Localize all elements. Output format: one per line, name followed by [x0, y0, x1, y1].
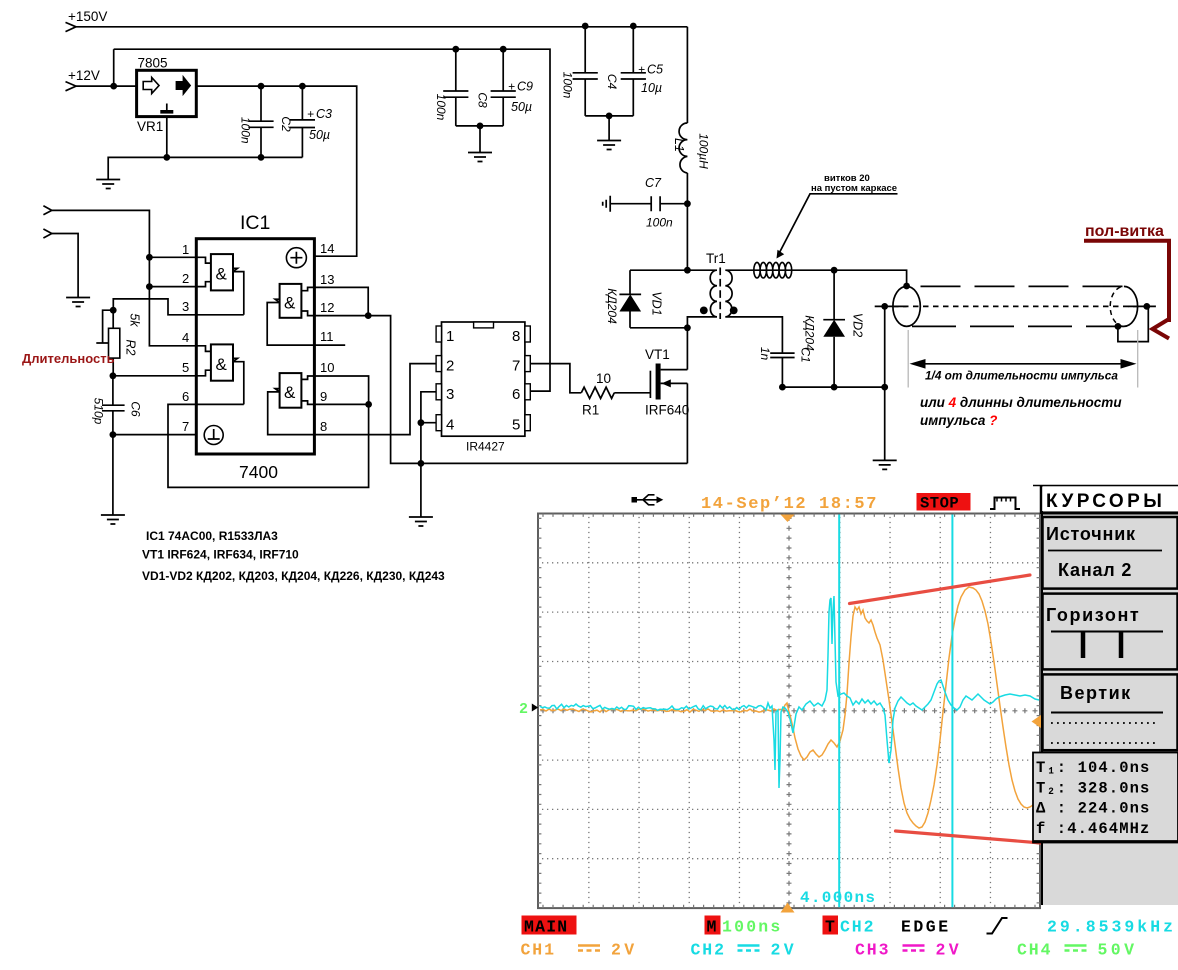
svg-text:100n: 100n — [239, 117, 253, 144]
trigger marker bottom orange — [781, 903, 795, 913]
pin box U2-6 — [512, 384, 530, 403]
pin box U2-2 — [436, 356, 454, 375]
svg-text:f :4.464MHz: f :4.464MHz — [1036, 820, 1150, 838]
junction +12V tap — [110, 83, 117, 90]
svg-text:VD1-VD2 КД202, КД203, КД204, К: VD1-VD2 КД202, КД203, КД204, КД226, КД23… — [142, 569, 445, 583]
gate U1D nand mirrored — [267, 284, 345, 345]
svg-text:&: & — [284, 294, 296, 313]
junction in34 rail — [418, 460, 425, 467]
svg-text:7: 7 — [512, 358, 520, 375]
wire coax center stub right — [1128, 305, 1156, 307]
svg-text:3: 3 — [446, 386, 454, 403]
pin 1 label — [182, 242, 189, 257]
junction 7805 gnd — [163, 154, 170, 161]
pin box U2-8 — [512, 326, 530, 345]
inductor half-turn choke 20 vitkov — [754, 262, 792, 278]
label 4.000ns cyan — [800, 889, 876, 907]
svg-text:CH2: CH2 — [691, 941, 726, 960]
svg-text:IR4427: IR4427 — [466, 440, 505, 454]
svg-text:29.8539kHz: 29.8539kHz — [1047, 918, 1176, 937]
svg-text:Источник: Источник — [1046, 524, 1136, 544]
panel button Gorizont — [1043, 594, 1178, 670]
svg-text:8: 8 — [512, 328, 520, 345]
wire secondary top to coax — [753, 270, 907, 286]
node +12V input connector — [66, 68, 100, 91]
svg-text:C8: C8 — [476, 92, 490, 108]
ground G5 — [597, 141, 621, 150]
svg-text:11: 11 — [320, 329, 334, 344]
svg-text:на пустом каркасе: на пустом каркасе — [811, 183, 897, 194]
ground C7 sideways — [603, 196, 611, 212]
channel 2 marker left — [519, 701, 538, 718]
wire +12V input to 7805 — [76, 85, 137, 87]
wire pin1 stub — [149, 256, 196, 258]
wire +12V riser — [113, 49, 115, 86]
svg-text:1n: 1n — [758, 347, 772, 361]
label CH4 — [1017, 941, 1137, 960]
icon usb trigger — [632, 495, 664, 505]
svg-text:T₁: 104.0ns: T₁: 104.0ns — [1036, 759, 1150, 777]
node input 2 connector — [43, 229, 51, 238]
svg-text:C4: C4 — [605, 74, 619, 90]
cursor line 1 cyan — [838, 515, 840, 908]
svg-text:4.000ns: 4.000ns — [800, 889, 876, 907]
pin 14 label — [320, 241, 334, 256]
pin 9 label — [320, 389, 327, 404]
svg-text:9: 9 — [320, 389, 327, 404]
svg-text:Tr1: Tr1 — [706, 251, 726, 266]
wire L1 to C7 node — [686, 173, 688, 270]
svg-text:100ns: 100ns — [722, 918, 783, 937]
gate U1A nand — [196, 254, 244, 315]
svg-text:MAIN: MAIN — [524, 918, 568, 937]
capacitor C4 100n — [561, 26, 620, 116]
svg-text:50µ: 50µ — [511, 100, 532, 114]
ground G4 — [468, 153, 492, 162]
coax cable body — [893, 286, 1147, 326]
wire in34 to ground — [420, 423, 422, 517]
inductor L1 100uH — [672, 123, 711, 173]
junction C2 bottom — [258, 154, 265, 161]
wire U2 pin3 pin4 tie — [421, 392, 436, 423]
svg-text:КД204: КД204 — [605, 288, 619, 324]
svg-text:2: 2 — [446, 358, 454, 375]
svg-text:4: 4 — [446, 417, 454, 434]
wire C6 to ground — [112, 435, 114, 515]
ground G3 — [101, 515, 125, 524]
svg-text:5k: 5k — [128, 313, 142, 327]
svg-text:C5: C5 — [647, 63, 663, 77]
svg-text:510p: 510p — [92, 398, 106, 425]
label 1/4 ot dlitelnosti impulsa — [925, 369, 1118, 383]
junction primary top — [684, 267, 691, 274]
svg-text:EDGE: EDGE — [901, 918, 951, 937]
svg-text:C7: C7 — [645, 176, 662, 190]
svg-text:+: + — [638, 63, 645, 77]
svg-text:КД204: КД204 — [803, 315, 817, 351]
regulator VR1 7805 — [137, 56, 197, 135]
svg-text:VT1 IRF624, IRF634, IRF710: VT1 IRF624, IRF634, IRF710 — [142, 548, 299, 562]
pin 12 label — [320, 300, 334, 315]
pin box U2-7 — [512, 356, 530, 375]
wire +150V rail — [76, 26, 687, 28]
capacitor C8 100n — [434, 49, 490, 126]
svg-text:VR1: VR1 — [137, 119, 163, 134]
potentiometer R2 5k — [96, 310, 141, 376]
svg-text:VD2: VD2 — [851, 313, 865, 337]
svg-text:Вертик: Вертик — [1060, 683, 1132, 703]
scope graticule border — [538, 514, 1040, 909]
cursor line 2 cyan — [951, 515, 953, 908]
svg-text:4: 4 — [182, 330, 189, 345]
wire pin12 to source rail — [314, 316, 687, 464]
svg-text:Δ : 224.0ns: Δ : 224.0ns — [1036, 800, 1150, 818]
diode VD1 KD204 — [605, 270, 664, 328]
panel button Vertik — [1043, 674, 1178, 750]
svg-text:50V: 50V — [1098, 941, 1138, 960]
svg-text:3: 3 — [182, 299, 189, 314]
ground symbol pin7 — [204, 426, 223, 445]
svg-text:L1: L1 — [672, 138, 686, 152]
junction pin2 — [146, 283, 153, 290]
capacitor C1 1n — [758, 347, 813, 387]
svg-text:7: 7 — [182, 419, 189, 434]
svg-text:IC1: IC1 — [240, 212, 270, 234]
capacitor C6 510p — [92, 376, 143, 435]
svg-text:100µH: 100µH — [697, 133, 711, 169]
junction C8 top — [452, 46, 459, 53]
panel button Istochnik / Kanal 2 — [1043, 517, 1178, 589]
svg-text:12: 12 — [320, 300, 334, 315]
ground G7 — [873, 460, 897, 469]
svg-text:5: 5 — [512, 417, 520, 434]
svg-text:C2: C2 — [279, 116, 293, 132]
svg-text:2V: 2V — [611, 941, 638, 960]
svg-text:1/4 от длительности импульса: 1/4 от длительности импульса — [925, 369, 1118, 383]
svg-text:100n: 100n — [646, 216, 673, 230]
svg-text:5: 5 — [182, 360, 189, 375]
junction C8C9 gnd — [477, 123, 484, 130]
junction coax center right — [1143, 303, 1150, 310]
label CH3 — [855, 941, 962, 960]
junction R2 top — [110, 307, 117, 314]
IC U2 IR4427 body — [442, 322, 525, 454]
icon pulse train — [990, 498, 1020, 510]
capacitor C9 50u electrolytic — [491, 49, 533, 126]
svg-text:Длительность: Длительность — [22, 351, 115, 366]
wire pin7 net — [113, 434, 196, 436]
transformer Tr1 — [687, 251, 782, 353]
junction VD2 top — [831, 267, 838, 274]
wire pin9 stub — [314, 403, 368, 405]
wire pin13 to pin12 — [314, 287, 368, 315]
svg-text:CH4: CH4 — [1017, 941, 1052, 960]
svg-text:или 4 длинны длительности: или 4 длинны длительности — [920, 395, 1122, 410]
svg-text:+150V: +150V — [68, 9, 107, 24]
junction C4 top — [582, 23, 589, 30]
svg-text:CH2: CH2 — [840, 918, 875, 937]
svg-text:50µ: 50µ — [309, 128, 330, 142]
capacitor C5 10u electrolytic — [621, 26, 663, 116]
svg-text:C6: C6 — [129, 401, 143, 417]
transistor VT1 IRF640 — [645, 328, 689, 463]
pin 7 label — [182, 419, 189, 434]
svg-text:10µ: 10µ — [641, 81, 662, 95]
svg-text:STOP: STOP — [920, 495, 959, 513]
label CH1 — [521, 941, 638, 960]
junction coax braid left — [903, 283, 910, 290]
resistor R1 10 — [581, 371, 650, 418]
pin 3 label — [182, 299, 189, 314]
label date time orange — [701, 495, 878, 514]
capacitor C3 50u electrolytic — [290, 86, 332, 157]
pin box U2-5 — [512, 415, 530, 434]
wire 7805 output (+5V) to pin 14 — [196, 86, 356, 256]
wire output ground rail — [782, 387, 884, 460]
svg-text:CH3: CH3 — [855, 941, 890, 960]
waveform CH1 orange — [540, 587, 1039, 828]
svg-text:2: 2 — [519, 701, 528, 718]
IC U1 7400 body — [196, 212, 314, 482]
trigger marker top orange — [781, 515, 795, 523]
panel cursor readout box — [1033, 753, 1178, 843]
pin box U2-3 — [436, 384, 454, 403]
svg-text:8: 8 — [320, 419, 327, 434]
svg-text:CH1: CH1 — [521, 941, 556, 960]
label STOP — [917, 493, 971, 513]
svg-text:6: 6 — [512, 386, 520, 403]
svg-text:R2: R2 — [124, 340, 138, 356]
pin box U2-4 — [436, 415, 454, 434]
junction pin9 — [365, 401, 372, 408]
ground G6 — [409, 517, 433, 526]
wire C4C5 gnd drop — [608, 116, 610, 141]
junction coax center left — [881, 303, 888, 310]
wire U2 pin7 to R1 — [530, 364, 581, 393]
junction VD2 bottom — [831, 384, 838, 391]
svg-text:1: 1 — [182, 242, 189, 257]
wire input ground rail — [108, 157, 302, 179]
svg-text:+: + — [508, 80, 515, 94]
capacitor C7 100n — [610, 176, 687, 230]
svg-text:10: 10 — [320, 360, 334, 375]
junction drain — [684, 324, 691, 331]
wire C8C9 gnd drop — [479, 126, 481, 153]
ground G1 — [96, 180, 120, 189]
svg-text:2V: 2V — [771, 941, 798, 960]
wire +12V rail to IR4427 pin6 — [114, 49, 550, 391]
label 29.8539kHz — [1047, 918, 1176, 937]
junction C4C5 gnd — [606, 113, 613, 120]
wire input2 to ground — [52, 234, 78, 298]
red annotation line upper — [850, 575, 1031, 604]
diode VD2 KD204 — [803, 270, 865, 387]
pin 6 label — [182, 389, 189, 404]
svg-text:T: T — [825, 918, 835, 937]
power symbol pin14 — [286, 248, 306, 268]
svg-text:1: 1 — [446, 328, 454, 345]
svg-text:C9: C9 — [517, 80, 533, 94]
svg-text:IRF640: IRF640 — [645, 403, 689, 418]
svg-text:T₂: 328.0ns: T₂: 328.0ns — [1036, 779, 1150, 797]
node input 1 connector — [43, 206, 51, 215]
pin 5 label — [182, 360, 189, 375]
label CH2 — [691, 941, 798, 960]
svg-text:&: & — [216, 355, 228, 374]
junction C5 top — [630, 23, 637, 30]
junction C7 L1 — [684, 200, 691, 207]
guide line right gray — [1137, 330, 1139, 388]
svg-text:пол-витка: пол-витка — [1085, 223, 1164, 240]
junction C2 top — [258, 83, 265, 90]
scope grid dots — [542, 518, 1038, 908]
svg-text:M: M — [707, 918, 717, 937]
wire coax center stub left — [875, 305, 907, 307]
svg-text:IC1 74AC00, R1533ЛА3: IC1 74AC00, R1533ЛА3 — [146, 529, 278, 543]
wire stub to ground rail — [884, 306, 886, 387]
svg-text:VD1: VD1 — [650, 291, 664, 315]
node +150V input connector — [66, 9, 108, 32]
pin 8 label — [320, 419, 327, 434]
svg-text:Канал 2: Канал 2 — [1058, 560, 1132, 580]
pin 13 label — [320, 272, 334, 287]
wire VD1 anode to drain — [630, 327, 687, 329]
label notes IC1 — [142, 529, 445, 583]
junction pin12 — [365, 312, 372, 319]
wire pin5 net — [113, 375, 196, 377]
svg-text:7805: 7805 — [138, 56, 168, 71]
pin box U2-1 — [436, 326, 454, 345]
label pol-vitka dark red — [1084, 223, 1169, 339]
svg-text:6: 6 — [182, 389, 189, 404]
junction pin1 — [146, 254, 153, 261]
pin 2 label — [182, 271, 189, 286]
scope center axis plus ticks — [538, 514, 1040, 909]
svg-text:14-Sep’12 18:57: 14-Sep’12 18:57 — [701, 495, 878, 514]
wire 7805 ground pin — [166, 117, 168, 158]
guide line left gray — [907, 330, 909, 388]
wire VD1 cathode to primary top — [630, 269, 687, 271]
red annotation line lower — [896, 831, 1042, 843]
svg-text:&: & — [216, 265, 228, 284]
pin 10 label — [320, 360, 334, 375]
scope side panel background — [1041, 486, 1178, 905]
svg-text:10: 10 — [596, 371, 611, 386]
label T CH2 EDGE — [823, 916, 951, 937]
junction gnd rail right — [881, 384, 888, 391]
svg-text:КУРСОРЫ: КУРСОРЫ — [1046, 491, 1165, 512]
junction pin5 — [110, 372, 117, 379]
junction pin7 — [110, 431, 117, 438]
svg-text:13: 13 — [320, 272, 334, 287]
svg-text:VT1: VT1 — [645, 347, 670, 362]
svg-text:R1: R1 — [582, 403, 599, 418]
svg-text:2: 2 — [182, 271, 189, 286]
junction coax braid right — [1115, 323, 1122, 330]
svg-text:14: 14 — [320, 241, 334, 256]
panel header KURSORY — [1033, 486, 1178, 515]
junction C3 top — [299, 83, 306, 90]
svg-text:100n: 100n — [434, 94, 448, 121]
gate U1B nand — [196, 344, 244, 404]
junction C1 bottom — [779, 384, 786, 391]
pin 11 label — [320, 329, 334, 344]
waveform CH2 cyan — [540, 596, 1039, 788]
svg-text:C3: C3 — [316, 107, 332, 121]
svg-text:+12V: +12V — [68, 68, 100, 83]
wire pin2 stub — [149, 286, 196, 288]
wire pin6 net feedback — [168, 376, 369, 487]
dimension arrow 1/4 — [910, 359, 1137, 369]
label vitkov 20 annotation — [777, 173, 898, 259]
gate U1C nand mirrored — [268, 364, 436, 435]
junction U2 pin4 — [418, 419, 425, 426]
wire pin3 net to R2 top — [113, 299, 244, 315]
capacitor C2 100n — [239, 86, 294, 157]
trigger level marker right orange — [1032, 714, 1043, 728]
wire C4 C5 ground link — [585, 115, 633, 117]
label Dlitelnost — [22, 351, 115, 366]
svg-text:2V: 2V — [936, 941, 963, 960]
wire half-turn short — [1118, 306, 1148, 341]
svg-text:7400: 7400 — [239, 462, 278, 482]
wire input1 to pins 1 2 4 — [52, 210, 197, 345]
icon edge slope — [987, 918, 1008, 934]
pin 4 label — [182, 330, 189, 345]
wire C8 C9 ground link — [456, 125, 503, 127]
svg-text:C1: C1 — [799, 347, 813, 362]
label MAIN — [522, 916, 577, 937]
svg-text:&: & — [284, 383, 296, 402]
svg-text:импульса ?: импульса ? — [920, 413, 997, 428]
junction C9 top — [500, 46, 507, 53]
label M 100ns — [705, 916, 783, 937]
svg-text:100n: 100n — [561, 72, 575, 99]
label ili 4 dlinny — [920, 395, 1122, 428]
svg-text:Горизонт: Горизонт — [1046, 605, 1140, 625]
wire +150V rail drop to L1 — [686, 27, 688, 123]
svg-text:+: + — [307, 107, 314, 121]
ground G2 — [66, 298, 90, 307]
